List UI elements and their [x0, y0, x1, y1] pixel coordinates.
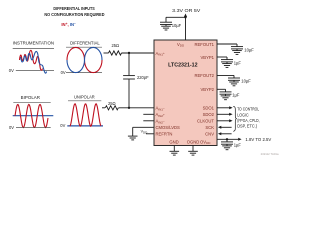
svg-text:UNIPOLAR: UNIPOLAR: [74, 94, 95, 99]
svg-text:25Ω: 25Ω: [108, 101, 116, 106]
svg-text:25Ω: 25Ω: [111, 43, 119, 48]
svg-text:LOGIC: LOGIC: [237, 112, 248, 117]
svg-text:TO CONTROL: TO CONTROL: [237, 107, 259, 112]
svg-text:0V: 0V: [9, 68, 14, 73]
svg-text:OGND: OGND: [187, 139, 200, 144]
svg-text:NO CONFIGURATION REQUIRED: NO CONFIGURATION REQUIRED: [44, 12, 105, 17]
svg-text:1µF: 1µF: [232, 93, 240, 98]
svg-text:VDD: VDD: [177, 42, 185, 48]
svg-text:DIFFERENTIAL INPUTS: DIFFERENTIAL INPUTS: [53, 6, 94, 11]
svg-text:0V: 0V: [61, 70, 66, 75]
svg-text:1.8V TO 2.5V: 1.8V TO 2.5V: [245, 137, 271, 142]
svg-text:DSP, ETC.): DSP, ETC.): [237, 124, 257, 129]
svg-text:(FPGA, CPLD,: (FPGA, CPLD,: [237, 118, 259, 123]
svg-text:CNV: CNV: [205, 132, 214, 137]
svg-text:SDO1: SDO1: [203, 106, 215, 111]
svg-text:OVDD: OVDD: [200, 139, 211, 145]
svg-text:SCK: SCK: [205, 125, 214, 130]
svg-text:0V: 0V: [9, 125, 14, 130]
svg-text:10µF: 10µF: [244, 47, 254, 52]
svg-text:CLKOUT: CLKOUT: [197, 119, 214, 124]
svg-text:INSTRUMENTATION: INSTRUMENTATION: [13, 40, 54, 45]
svg-text:3.3V OR 5V: 3.3V OR 5V: [172, 8, 200, 13]
svg-text:10µF: 10µF: [172, 23, 182, 28]
svg-text:232112 TA01a: 232112 TA01a: [261, 152, 279, 156]
svg-text:CMOS/LVDS: CMOS/LVDS: [156, 125, 181, 130]
svg-text:REFRTN: REFRTN: [156, 132, 173, 137]
svg-text:VBYP1: VBYP1: [200, 55, 214, 60]
svg-text:10µF: 10µF: [241, 79, 251, 84]
svg-text:GND: GND: [169, 139, 178, 144]
svg-text:0V: 0V: [60, 123, 65, 128]
svg-text:SDO2: SDO2: [203, 112, 215, 117]
svg-text:REFOUT2: REFOUT2: [194, 73, 214, 78]
svg-text:BIPOLAR: BIPOLAR: [21, 95, 40, 100]
svg-text:DIFFERENTIAL: DIFFERENTIAL: [70, 40, 100, 45]
svg-text:REFOUT1: REFOUT1: [194, 42, 214, 47]
svg-text:1µF: 1µF: [234, 143, 242, 148]
svg-text:220pF: 220pF: [137, 75, 149, 80]
svg-text:VBYP2: VBYP2: [200, 87, 214, 92]
svg-text:1µF: 1µF: [234, 60, 242, 65]
svg-text:LTC2321-12: LTC2321-12: [168, 62, 198, 68]
